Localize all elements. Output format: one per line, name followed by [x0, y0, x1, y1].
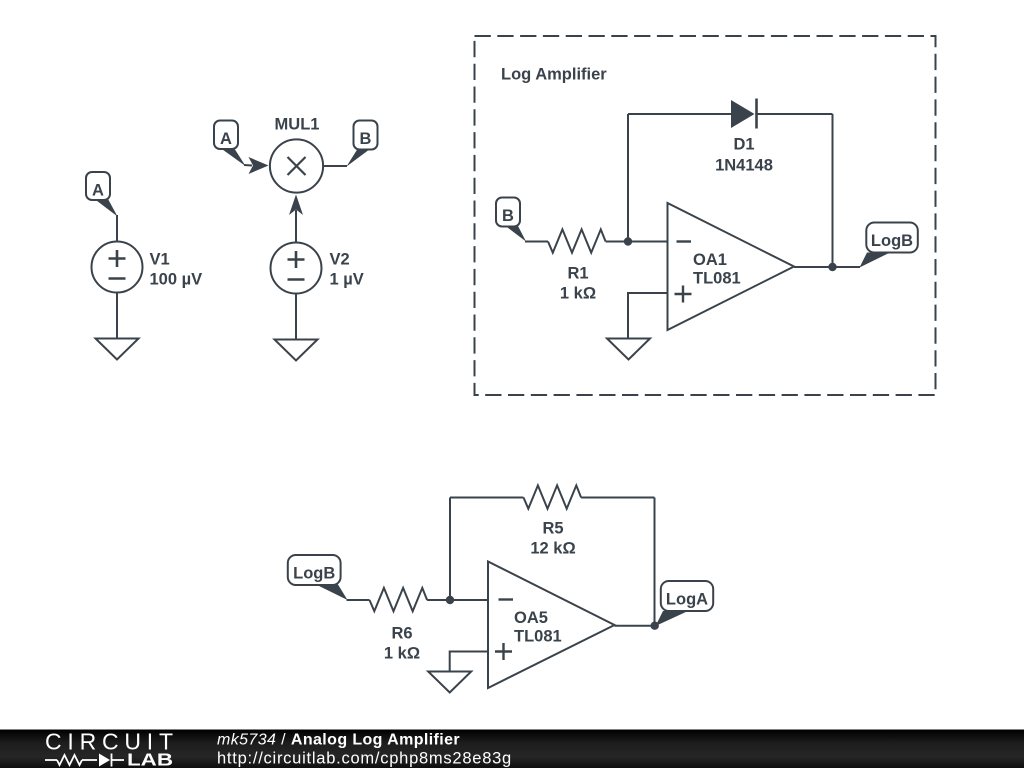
wire V2 to ground — [295, 294, 297, 340]
svg-text:A: A — [92, 182, 104, 200]
wire feedback top left — [628, 113, 732, 115]
resistor R1 — [548, 229, 606, 252]
svg-text:mk5734 / Analog Log Amplifier: mk5734 / Analog Log Amplifier — [217, 732, 460, 749]
wire R5 to right vertical — [581, 497, 654, 499]
svg-text:TL081: TL081 — [693, 270, 741, 288]
node junction at R1/feedback — [624, 237, 632, 245]
svg-text:OA1: OA1 — [693, 251, 727, 269]
wire OA1 plus input — [628, 293, 668, 339]
svg-text:TL081: TL081 — [514, 628, 562, 646]
flag LogB (output) — [860, 223, 918, 268]
svg-text:1N4148: 1N4148 — [715, 157, 773, 175]
svg-text:12 kΩ: 12 kΩ — [530, 540, 575, 558]
node junction at OA5 output — [651, 622, 659, 630]
flag B (MUL1 output) — [347, 121, 378, 167]
voltage source V1 — [92, 242, 203, 293]
svg-text:Log Amplifier: Log Amplifier — [501, 66, 607, 84]
ground (V1) — [96, 339, 139, 360]
flag A (net A at V1) — [86, 172, 118, 217]
svg-text:R6: R6 — [391, 625, 412, 643]
svg-text:1 kΩ: 1 kΩ — [384, 645, 420, 663]
svg-text:A: A — [220, 130, 232, 148]
svg-text:MUL1: MUL1 — [275, 116, 320, 134]
resistor R6 — [370, 588, 428, 611]
svg-text:LogB: LogB — [293, 565, 335, 583]
svg-text:LogB: LogB — [871, 232, 913, 250]
svg-text:1 kΩ: 1 kΩ — [560, 285, 596, 303]
ground (OA5) — [428, 672, 471, 693]
flag LogA (output) — [656, 581, 714, 626]
svg-text:1 µV: 1 µV — [330, 271, 364, 289]
wire OA5 plus input — [450, 652, 488, 672]
flag B (log amp input) — [496, 198, 526, 242]
wire MUL1 to flag B — [323, 165, 347, 167]
svg-text:R1: R1 — [567, 265, 588, 283]
resistor R5 — [524, 485, 582, 508]
ground (V2) — [275, 340, 318, 361]
node junction at output/feedback — [828, 263, 836, 271]
wire feedback left vertical (R5) — [449, 498, 451, 601]
svg-text:R5: R5 — [542, 520, 563, 538]
dashed box Log Amplifier — [475, 36, 936, 395]
svg-text:http://circuitlab.com/cphp8ms2: http://circuitlab.com/cphp8ms28e83g — [217, 750, 512, 768]
wire flag A to V1 — [116, 215, 118, 242]
svg-text:LAB: LAB — [127, 750, 173, 768]
wire V1 to ground — [116, 293, 118, 339]
svg-text:V2: V2 — [330, 251, 350, 269]
wire feedback left vertical — [627, 114, 629, 242]
wire OA5 output — [615, 625, 659, 627]
ground (OA1) — [607, 339, 650, 360]
wire B to R1 — [525, 241, 548, 243]
flag LogB (lower input) — [288, 555, 348, 600]
logo resistor-diode-LAB row — [45, 754, 124, 767]
op-amp OA1 — [668, 203, 795, 330]
node junction at R6/feedback — [446, 596, 454, 604]
footer bar — [0, 730, 1024, 768]
flag A (MUL1 input) — [214, 121, 246, 167]
wire R6 to op-amp — [427, 599, 488, 601]
svg-text:100 µV: 100 µV — [150, 271, 203, 289]
wire feedback top right — [757, 113, 833, 115]
svg-text:LogA: LogA — [666, 591, 708, 609]
wire V2 to MUL1 with arrowhead — [295, 210, 297, 243]
svg-text:D1: D1 — [733, 136, 754, 154]
wire to R5 — [450, 497, 524, 499]
svg-text:B: B — [502, 207, 514, 225]
wire OA1 output — [794, 266, 860, 268]
diode D1 — [715, 99, 773, 175]
multiplier MUL1 — [270, 139, 323, 192]
wire A to MUL1 with arrowhead — [244, 164, 252, 167]
svg-text:V1: V1 — [150, 251, 170, 269]
svg-text:OA5: OA5 — [514, 609, 548, 627]
wire R1 to op-amp — [606, 241, 668, 243]
svg-text:B: B — [360, 130, 372, 148]
op-amp OA5 — [488, 562, 615, 689]
wire feedback right vertical — [832, 114, 834, 267]
voltage source V2 — [271, 243, 364, 294]
wire feedback right vertical (lower) — [654, 498, 656, 627]
wire LogB to R6 — [347, 599, 370, 601]
